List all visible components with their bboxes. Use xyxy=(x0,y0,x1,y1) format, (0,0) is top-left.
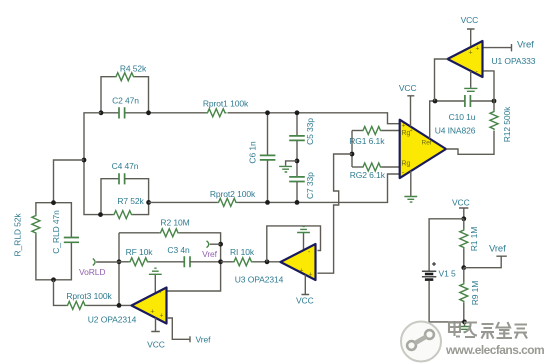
node C5 top junction xyxy=(295,110,300,115)
svg-text:C10 1u: C10 1u xyxy=(449,112,476,122)
wire U1 output xyxy=(435,59,448,101)
svg-text:RG2 6.1k: RG2 6.1k xyxy=(350,170,386,180)
svg-text:Vref: Vref xyxy=(489,243,506,254)
capacitor C10 xyxy=(449,95,494,122)
svg-text:Ref: Ref xyxy=(422,140,432,147)
node VCC junction xyxy=(461,216,466,221)
capacitor C5 xyxy=(289,113,315,161)
node B junction xyxy=(146,110,151,115)
node Rprot3 junction xyxy=(117,303,122,308)
wire VCC to battery xyxy=(429,219,464,271)
svg-text:R9 1M: R9 1M xyxy=(470,281,480,306)
node G junction xyxy=(51,277,56,282)
node Vref divider junction xyxy=(461,265,466,270)
node Ref junction xyxy=(433,99,438,104)
node C7 bottom junction xyxy=(295,200,300,205)
resistor R1 xyxy=(460,219,479,268)
node Vref tap junction xyxy=(218,242,223,247)
wire battery bottom xyxy=(429,281,464,322)
node U3 output junction xyxy=(265,259,270,264)
resistor Rprot2 xyxy=(210,189,256,206)
VCC terminal source column xyxy=(452,197,470,219)
node C6 top junction xyxy=(265,110,270,115)
wire U2 +in to Vref xyxy=(167,318,190,342)
capacitor C6 xyxy=(248,113,276,203)
wire mid to ground xyxy=(286,161,297,166)
watermark chinese text xyxy=(449,321,527,339)
svg-text:R_RLD 52k: R_RLD 52k xyxy=(13,213,23,257)
svg-text:C2 47n: C2 47n xyxy=(112,96,139,106)
capacitor C4 xyxy=(101,161,149,215)
svg-text:C5 33p: C5 33p xyxy=(305,118,315,145)
svg-text:Vref: Vref xyxy=(196,334,212,344)
resistor Rprot1 xyxy=(203,98,249,116)
capacitor C2 xyxy=(112,96,139,119)
svg-text:RG1 6.1k: RG1 6.1k xyxy=(349,136,385,146)
VCC terminal U2 xyxy=(147,318,165,350)
node C5-C7 mid junction xyxy=(295,159,300,164)
wire bottom rail left xyxy=(149,201,217,203)
svg-text:+: + xyxy=(402,123,406,130)
node D junction xyxy=(98,212,103,217)
node F junction xyxy=(51,200,56,205)
ground U2 flipped xyxy=(149,268,162,293)
svg-text:U3 OPA2314: U3 OPA2314 xyxy=(235,275,284,285)
VCC terminal U4 xyxy=(399,83,417,127)
svg-text:U2 OPA2314: U2 OPA2314 xyxy=(88,314,137,324)
wire RLD box to Rprot3 xyxy=(54,280,67,306)
svg-text:R7 52k: R7 52k xyxy=(117,196,144,206)
svg-text:+: + xyxy=(160,313,164,320)
svg-text:Rprot3 100k: Rprot3 100k xyxy=(66,291,112,301)
wire U3 feedback loop xyxy=(267,226,321,262)
svg-text:+: + xyxy=(151,309,155,316)
op-amp U3 xyxy=(235,244,316,285)
capacitor C3 xyxy=(167,245,220,267)
op-amp U4 xyxy=(400,120,476,178)
node RF left junction xyxy=(117,259,122,264)
svg-text:C_RLD 47n: C_RLD 47n xyxy=(51,210,61,254)
resistor RG2 xyxy=(350,163,400,180)
resistor R4 xyxy=(101,64,149,113)
Vref terminal right xyxy=(464,243,507,267)
wire bottom rail right to U4 IN- xyxy=(238,174,400,202)
svg-text:+: + xyxy=(309,272,313,279)
resistor RF xyxy=(119,247,184,266)
svg-text:VCC: VCC xyxy=(296,296,314,306)
svg-text:RF 10k: RF 10k xyxy=(126,247,154,257)
wire top rail mid segment xyxy=(125,112,206,114)
svg-text:+: + xyxy=(469,50,473,57)
resistor R9 xyxy=(460,268,480,322)
resistor RG1 xyxy=(349,127,399,147)
ground mid xyxy=(279,166,292,172)
node battery return junction xyxy=(462,320,467,325)
wire top rail right segment to U4 IN+ xyxy=(228,113,400,124)
wire RG vertical xyxy=(351,131,353,168)
svg-text:VCC: VCC xyxy=(461,15,479,25)
node RG mid junction xyxy=(350,152,355,157)
svg-text:U4 INA826: U4 INA826 xyxy=(435,126,476,136)
svg-text:VCC: VCC xyxy=(452,197,470,207)
capacitor C_RLD xyxy=(51,203,79,280)
svg-text:R2 10M: R2 10M xyxy=(160,217,189,227)
svg-text:+: + xyxy=(300,268,304,275)
svg-text:C3 4n: C3 4n xyxy=(167,245,190,255)
wire to RLD box top xyxy=(54,160,85,203)
node A junction xyxy=(99,110,104,115)
battery V1 xyxy=(422,262,456,280)
resistor R2 xyxy=(119,217,221,291)
capacitor C7 xyxy=(289,161,315,203)
svg-text:R4 52k: R4 52k xyxy=(120,64,147,74)
svg-text:C4 47n: C4 47n xyxy=(112,161,139,171)
wire U4 Ref riser xyxy=(430,101,465,139)
wire U1 -in feedback xyxy=(484,71,495,101)
VoRLD terminal xyxy=(79,259,119,278)
svg-text:Rprot1 100k: Rprot1 100k xyxy=(203,98,249,108)
node E junction xyxy=(146,200,151,205)
wire left column from node A xyxy=(84,113,101,215)
svg-text:Vref: Vref xyxy=(517,39,534,50)
Vref terminal mid xyxy=(202,241,221,259)
svg-text:Rg: Rg xyxy=(402,161,411,168)
watermark logo circle xyxy=(401,322,441,362)
ground U4 xyxy=(404,171,417,202)
node summing junction xyxy=(218,259,223,264)
svg-text:R1 1M: R1 1M xyxy=(469,227,479,252)
svg-text:www.elecfans.com: www.elecfans.com xyxy=(445,343,544,357)
op-amp U1 xyxy=(448,41,536,77)
svg-text:Vref: Vref xyxy=(202,249,218,259)
wire top rail left segment xyxy=(101,112,119,114)
svg-text:V1 5: V1 5 xyxy=(439,268,456,278)
VCC terminal U1 xyxy=(461,15,479,46)
svg-text:+: + xyxy=(476,46,480,53)
op-amp U2 xyxy=(88,288,167,325)
wire RG mid to U3 +in xyxy=(318,154,353,273)
svg-text:C6 1n: C6 1n xyxy=(248,141,258,164)
node C junction xyxy=(82,158,87,163)
wire R2 left riser xyxy=(118,233,120,306)
svg-text:VoRLD: VoRLD xyxy=(79,267,105,277)
svg-text:U1 OPA333: U1 OPA333 xyxy=(492,56,536,66)
resistor R7 xyxy=(101,196,149,219)
svg-text:RI 10k: RI 10k xyxy=(230,247,255,257)
resistor RI xyxy=(221,247,281,266)
svg-text:+: + xyxy=(410,128,413,134)
resistor R_RLD xyxy=(13,203,54,280)
svg-text:Rprot2 100k: Rprot2 100k xyxy=(210,189,256,199)
svg-text:VCC: VCC xyxy=(399,83,417,93)
resistor Rprot3 xyxy=(66,291,112,309)
ground U1 xyxy=(464,71,477,91)
svg-text:C7 33p: C7 33p xyxy=(305,172,315,199)
wire U1 +in to Vref xyxy=(484,44,512,51)
ground source xyxy=(458,322,471,332)
ground U3 flipped xyxy=(297,226,310,249)
resistor R12 xyxy=(490,101,512,142)
VCC terminal U3 xyxy=(296,275,314,306)
node C10 right junction xyxy=(492,99,497,104)
wire U4 output to R12 bottom xyxy=(446,131,494,154)
svg-text:R12 500k: R12 500k xyxy=(502,106,512,142)
wire Rprot3 to U2 xyxy=(87,304,132,306)
node C6 bottom junction xyxy=(265,200,270,205)
svg-text:VCC: VCC xyxy=(147,340,165,350)
